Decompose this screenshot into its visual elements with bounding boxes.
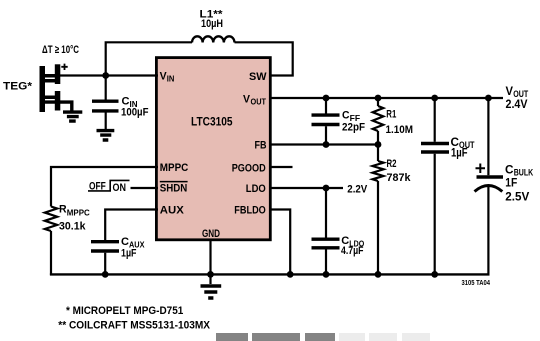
svg-text:4.7µF: 4.7µF <box>341 245 364 257</box>
wire LDO <box>269 187 343 189</box>
plus sign at CBULK <box>476 164 486 174</box>
wire CAUX bottom stem <box>104 253 106 275</box>
wire MPPC to RMPPC <box>51 167 158 207</box>
svg-text:V: V <box>243 94 251 106</box>
svg-text:* MICROPELT MPG-D751: * MICROPELT MPG-D751 <box>66 305 183 317</box>
wire CBULK stem <box>487 98 489 175</box>
resistor R1 <box>377 98 379 106</box>
ground below CIN <box>97 131 115 140</box>
node rail/COUT <box>431 271 438 278</box>
thermoelectric generator TEG <box>40 64 61 112</box>
node FB/R1/R2 <box>375 141 382 148</box>
node VIN junction <box>102 72 109 79</box>
wire CIN branch down from VIN junction <box>105 76 107 100</box>
wire SHDN stub <box>131 187 159 189</box>
node LDO/CLDO <box>323 185 330 192</box>
svg-text:2.4V: 2.4V <box>506 99 528 111</box>
wire vertical from VIN junction up to inductor <box>106 42 192 76</box>
node VOUT/CFF <box>323 95 330 102</box>
svg-text:IN: IN <box>167 74 175 84</box>
capacitor C_AUX plates <box>91 242 119 251</box>
wire from inductor to SW pin <box>235 42 293 75</box>
svg-text:TEG*: TEG* <box>3 81 33 93</box>
node rail/CLDO <box>323 271 330 278</box>
svg-text:MPPC: MPPC <box>160 162 189 174</box>
svg-text:SW: SW <box>249 71 267 83</box>
IC U1 LTC3105 body <box>156 58 270 240</box>
svg-text:LDO: LDO <box>246 183 266 195</box>
node rail/R2 <box>375 271 382 278</box>
svg-text:10µH: 10µH <box>201 18 223 30</box>
svg-text:AUX: AUX <box>160 205 185 217</box>
wire VOUT rail <box>269 97 503 99</box>
svg-text:ΔT ≥ 10°C: ΔT ≥ 10°C <box>42 44 79 56</box>
wire FB rail <box>269 143 377 145</box>
svg-text:LTC3105: LTC3105 <box>191 114 233 128</box>
svg-text:1.10M: 1.10M <box>386 124 414 136</box>
node VOUT/COUT <box>431 95 438 102</box>
svg-text:MPPC: MPPC <box>67 208 90 218</box>
wire AUX to CAUX <box>105 210 158 241</box>
svg-text:R2: R2 <box>387 158 397 170</box>
svg-text:R1: R1 <box>386 109 396 121</box>
ground below GND pin <box>201 286 222 298</box>
wire COUT stem <box>434 98 436 142</box>
svg-text:C: C <box>505 163 514 177</box>
svg-text:** COILCRAFT MSS5131-103MX: ** COILCRAFT MSS5131-103MX <box>58 319 210 331</box>
svg-text:C: C <box>121 236 129 248</box>
svg-text:22pF: 22pF <box>342 122 365 134</box>
svg-text:2.5V: 2.5V <box>505 192 529 204</box>
svg-text:FB: FB <box>255 140 267 152</box>
svg-text:FBLDO: FBLDO <box>234 205 266 217</box>
svg-text:3105 TA04: 3105 TA04 <box>462 278 491 287</box>
svg-text:2.2V: 2.2V <box>347 184 368 196</box>
wire CIN to ground <box>105 113 107 130</box>
capacitor C_LDO plates <box>312 239 340 248</box>
capacitor C_IN plates <box>92 101 119 111</box>
node VOUT/R1 <box>375 95 382 102</box>
node rail/CAUX <box>102 271 109 278</box>
svg-text:1µF: 1µF <box>121 248 137 260</box>
svg-text:1µF: 1µF <box>451 147 468 159</box>
wire GND pin down <box>209 240 211 284</box>
svg-text:SHDN: SHDN <box>160 183 188 195</box>
inductor L1 coil <box>192 36 234 42</box>
plus sign at TEG output <box>61 64 67 70</box>
resistor R_MPPC <box>45 207 57 232</box>
capacitor C_OUT plates <box>421 144 449 153</box>
svg-text:C: C <box>342 110 350 122</box>
svg-text:BULK: BULK <box>514 168 534 178</box>
node rail/FBLDO <box>287 271 294 278</box>
capacitor C_BULK plates (polarized) <box>477 175 504 178</box>
svg-text:R: R <box>59 204 67 216</box>
svg-text:OUT: OUT <box>513 89 528 99</box>
wire PGOOD stub <box>269 166 293 168</box>
capacitor C_FF plates <box>312 115 340 124</box>
wire CLDO bottom stem <box>325 250 327 276</box>
ground below TEG <box>63 112 82 121</box>
node rail/GND pin <box>207 271 214 278</box>
svg-text:100µF: 100µF <box>121 107 149 119</box>
wire FBLDO to ground rail <box>269 210 290 276</box>
svg-text:PGOOD: PGOOD <box>232 163 266 175</box>
svg-text:ON: ON <box>113 182 127 194</box>
OFF/ON level symbol <box>88 180 130 191</box>
svg-text:787k: 787k <box>387 172 412 184</box>
node VOUT/CBULK <box>485 95 492 102</box>
svg-text:1F: 1F <box>505 178 517 190</box>
node FB/CFF <box>323 141 330 148</box>
svg-text:GND: GND <box>202 228 220 240</box>
faint cut-off watermark bar <box>216 333 335 341</box>
wire CLDO top stem <box>325 188 327 238</box>
svg-text:30.1k: 30.1k <box>59 221 86 233</box>
svg-text:OUT: OUT <box>251 97 267 107</box>
svg-text:OFF: OFF <box>89 180 106 192</box>
wire TEG negative to ground <box>45 102 72 110</box>
wire CFF bottom stem <box>325 126 327 144</box>
resistor R2 <box>377 145 379 162</box>
svg-text:V: V <box>506 84 514 98</box>
wire ground rail <box>50 273 490 275</box>
wire VIN rail from TEG to VIN pin <box>59 74 158 76</box>
wire CFF top stem <box>325 98 327 114</box>
